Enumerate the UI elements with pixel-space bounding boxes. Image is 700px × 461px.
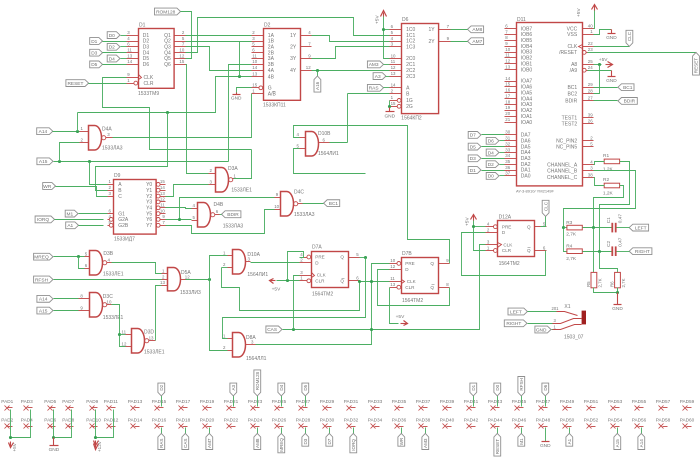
svg-text:A1: A1	[67, 223, 73, 229]
wire D1.Q4 to D6.1C1	[186, 18, 390, 53]
svg-text:1533ЛА3: 1533ЛА3	[102, 145, 123, 151]
svg-text:20: 20	[505, 111, 510, 116]
svg-text:11: 11	[127, 48, 132, 53]
svg-text:D0: D0	[488, 174, 494, 180]
svg-text:PRE: PRE	[315, 255, 324, 260]
svg-text:30: 30	[505, 130, 510, 135]
gate D3D 1533ЛЕ1 NOR	[122, 329, 165, 356]
svg-text:MREQ: MREQ	[279, 438, 284, 452]
svg-text:10: 10	[391, 53, 396, 58]
pad PAD23	[248, 399, 263, 411]
svg-text:D6: D6	[543, 384, 548, 390]
svg-text:D3: D3	[470, 156, 476, 162]
resistor R1	[603, 153, 620, 173]
wire D2.4Y to D6.2C2	[312, 70, 390, 72]
svg-text:PAD60: PAD60	[680, 417, 695, 422]
pad PAD51	[584, 399, 599, 411]
svg-text:18: 18	[505, 99, 510, 104]
pad PAD59	[680, 399, 695, 411]
svg-text:PAD1: PAD1	[1, 399, 13, 404]
flag GND at X1	[535, 326, 553, 333]
svg-text:19: 19	[505, 105, 510, 110]
svg-text:15: 15	[391, 101, 396, 106]
svg-text:D0: D0	[109, 33, 115, 39]
svg-text:IORQ: IORQ	[351, 439, 356, 451]
svg-text:CLR: CLR	[315, 279, 325, 284]
capacitor C1	[606, 214, 624, 233]
wire D10A.out to D7A.D	[251, 262, 300, 264]
flag D6 at PAD47	[542, 383, 549, 406]
svg-text:10: 10	[390, 258, 395, 263]
flag D2	[486, 161, 504, 168]
resistor R4	[566, 244, 582, 262]
svg-text:D1: D1	[139, 22, 146, 28]
svg-text:PAD54: PAD54	[608, 417, 623, 422]
wire A14 net to D2.4B	[78, 77, 252, 113]
svg-text:PAD11: PAD11	[104, 399, 119, 404]
svg-text:GND: GND	[49, 447, 60, 453]
svg-text:15: 15	[160, 179, 165, 184]
svg-text:PAD53: PAD53	[608, 399, 623, 404]
svg-text:GND: GND	[536, 327, 547, 333]
pad PAD5	[44, 399, 56, 411]
wire D2.G to GND	[237, 88, 252, 93]
svg-text:GND: GND	[384, 114, 395, 120]
power +5V arrow at D7B.CLR	[390, 288, 408, 326]
wire D8A.out to CAS riser	[256, 264, 390, 345]
svg-text:RAS: RAS	[159, 439, 164, 448]
svg-text:14: 14	[505, 76, 510, 81]
svg-text:37: 37	[505, 171, 510, 176]
flag WR	[43, 183, 108, 197]
pad PAD14	[128, 417, 143, 428]
IC D2 1533КП11 multiplexer	[252, 22, 312, 108]
gate D10A 1564ЛИ1 AND	[223, 250, 268, 279]
svg-text:12: 12	[391, 65, 396, 70]
pad PAD27	[296, 399, 311, 411]
svg-text:PAD45: PAD45	[512, 399, 527, 404]
flag D2	[107, 43, 126, 50]
flag A15 at PAD54	[614, 428, 621, 450]
svg-text:C2: C2	[606, 240, 612, 246]
pad PAD48	[536, 417, 551, 428]
flip-flop D7B 1564ТМ2	[390, 251, 450, 304]
pad PAD42	[464, 417, 479, 428]
pad PAD25	[272, 399, 287, 411]
svg-text:10: 10	[505, 47, 510, 52]
svg-text:31: 31	[505, 136, 510, 141]
svg-text:+5V: +5V	[396, 314, 405, 320]
svg-text:D5: D5	[303, 384, 308, 390]
svg-text:BC1: BC1	[329, 201, 339, 207]
svg-text:LEFT: LEFT	[635, 225, 647, 231]
svg-text:TEST2: TEST2	[562, 121, 578, 127]
flag A15 pads side	[37, 307, 79, 314]
pad PAD39	[440, 399, 455, 411]
pad PAD35	[392, 399, 407, 411]
pad PAD41	[464, 399, 479, 411]
svg-text:22: 22	[588, 41, 593, 46]
gate D3B 1533ЛЕ1 NOR	[85, 251, 124, 278]
svg-text:RAS: RAS	[369, 86, 379, 92]
svg-text:2Y: 2Y	[290, 45, 297, 51]
svg-text:PAD4: PAD4	[21, 417, 33, 422]
pad PAD58	[656, 417, 671, 428]
power +12V at PAD9-12	[94, 410, 114, 453]
flag A3	[373, 73, 389, 80]
svg-text:25: 25	[588, 59, 593, 64]
svg-text:M1: M1	[66, 211, 73, 217]
svg-text:PAD37: PAD37	[416, 399, 431, 404]
svg-text:A3: A3	[231, 384, 236, 390]
flag A3 at PAD21	[230, 383, 237, 406]
junction R4 right	[598, 250, 601, 253]
flag D5	[90, 61, 127, 68]
wire D10B.out to D6.B riser	[330, 142, 348, 144]
wire D2.1Y to D6.1C2	[312, 36, 390, 42]
wire D1.Q1 to D2.1A	[186, 35, 252, 37]
svg-text:PAD35: PAD35	[392, 399, 407, 404]
svg-text:A3: A3	[375, 74, 381, 80]
svg-text:D3D: D3D	[144, 329, 154, 335]
wire D7A.Q to D8A.1	[360, 257, 366, 259]
svg-text:12: 12	[185, 274, 190, 279]
power +5V arrow at D11.A8	[594, 57, 613, 94]
wire CAS net	[283, 245, 486, 332]
svg-text:A14: A14	[639, 439, 644, 448]
wire D10B.5 to D7A.Q	[294, 149, 366, 174]
wire D1 clock net	[103, 78, 252, 150]
svg-text:4A: 4A	[268, 68, 275, 74]
svg-text:PAD19: PAD19	[200, 399, 215, 404]
svg-text:39: 39	[588, 113, 593, 118]
flag CLC at D11.CLK	[594, 30, 633, 46]
wire CHANNEL_C to R2 to mix	[594, 178, 605, 186]
wire branch to D2.1B row	[239, 42, 241, 77]
pad PAD50	[560, 417, 575, 428]
pad PAD57	[656, 399, 671, 411]
wire A15 to D2.3B	[229, 65, 252, 162]
svg-text:BC1: BC1	[623, 85, 633, 91]
svg-text:PAD18: PAD18	[176, 417, 191, 422]
svg-text:1,2K: 1,2K	[603, 166, 614, 172]
svg-text:4Y: 4Y	[290, 68, 297, 74]
pad PAD12	[104, 417, 119, 428]
wire D10B.out to D6.B	[348, 93, 390, 95]
svg-text:16: 16	[505, 88, 510, 93]
pad PAD40	[440, 417, 455, 428]
pad PAD32	[344, 417, 359, 428]
svg-text:PAD42: PAD42	[464, 417, 479, 422]
svg-text:CHANNEL_C: CHANNEL_C	[547, 175, 578, 181]
svg-text:Q: Q	[527, 224, 531, 229]
power +5V at D11.VCC	[576, 5, 598, 29]
svg-text:CLK: CLK	[407, 279, 417, 284]
svg-text:MREQ: MREQ	[34, 255, 49, 261]
ground at PAD5-8	[49, 410, 72, 453]
svg-text:13: 13	[391, 71, 396, 76]
svg-text:IORQ: IORQ	[37, 217, 50, 223]
svg-text:D0: D0	[495, 384, 500, 390]
svg-text:RIGHT: RIGHT	[635, 249, 650, 255]
wire D3B.out to D5A.1	[112, 263, 162, 274]
svg-text:A14: A14	[39, 297, 48, 303]
svg-text:GND: GND	[231, 96, 242, 102]
flag BC1	[594, 84, 635, 91]
svg-text:/RESET: /RESET	[559, 50, 577, 56]
svg-text:PAD6: PAD6	[44, 417, 56, 422]
svg-text:PAD26: PAD26	[272, 417, 287, 422]
svg-text:17: 17	[505, 94, 510, 99]
wire R3 to C1	[583, 227, 612, 229]
svg-text:BDIR: BDIR	[565, 99, 577, 105]
svg-text:1533ЛЕ1: 1533ЛЕ1	[231, 187, 252, 193]
svg-text:Q: Q	[340, 255, 344, 260]
svg-text:Q6: Q6	[164, 62, 171, 68]
pad PAD3	[21, 399, 33, 411]
svg-text:D3A: D3A	[228, 166, 238, 172]
svg-text:CLK: CLK	[317, 273, 327, 278]
flag D0	[486, 173, 504, 180]
svg-text:Q: Q	[340, 279, 344, 284]
flag BC1 at D4C	[303, 200, 340, 207]
svg-text:C: C	[118, 194, 122, 200]
flag MREQ at PAD26	[278, 428, 285, 453]
junction Qbar row	[358, 280, 390, 283]
junction	[316, 69, 319, 72]
svg-text:2,7K: 2,7K	[621, 278, 626, 287]
svg-text:PAD25: PAD25	[272, 399, 287, 404]
svg-text:PAD20: PAD20	[200, 417, 215, 422]
pad PAD7	[62, 399, 74, 411]
power +5V at D12A	[464, 215, 485, 251]
flag D4	[486, 149, 504, 156]
svg-text:14: 14	[127, 59, 132, 64]
pad PAD53	[608, 399, 623, 411]
pad PAD11	[104, 399, 119, 411]
flag IORQ at PAD32	[350, 428, 357, 453]
svg-text:GND: GND	[540, 443, 551, 449]
flag A16	[314, 71, 321, 93]
svg-text:NC_PIN5: NC_PIN5	[556, 144, 577, 150]
svg-text:D5: D5	[470, 144, 476, 150]
flip-flop D12A 1564ТМ2	[486, 214, 547, 267]
resistor R2	[603, 177, 620, 197]
flag D4	[107, 55, 126, 62]
flag AM3	[367, 61, 389, 68]
svg-text:3Y: 3Y	[290, 56, 297, 62]
svg-text:D6: D6	[143, 62, 150, 68]
svg-text:D7A: D7A	[312, 245, 322, 251]
svg-text:1533ЛА3: 1533ЛА3	[223, 223, 244, 229]
pad PAD36	[392, 417, 407, 428]
svg-text:DA0: DA0	[521, 174, 531, 180]
junction R3 left	[562, 226, 565, 229]
svg-text:10: 10	[107, 300, 112, 305]
svg-text:AM3: AM3	[423, 438, 428, 448]
svg-text:R1: R1	[603, 153, 609, 159]
svg-text:Y7: Y7	[146, 223, 152, 229]
svg-text:IOA0: IOA0	[521, 120, 533, 126]
wire D9.Y6 to D4B.5 and D4C.9	[180, 198, 275, 220]
svg-text:A/B: A/B	[268, 91, 277, 97]
wire D9.Y2 to D3A.3	[166, 185, 209, 197]
svg-text:AM7: AM7	[472, 39, 482, 45]
flag D7	[468, 132, 504, 139]
pad PAD28	[296, 417, 311, 428]
ground at D11.VSS	[594, 30, 618, 42]
svg-text:D6: D6	[402, 17, 409, 23]
pad PAD44	[488, 417, 503, 428]
svg-text:32: 32	[505, 141, 510, 146]
svg-text:10: 10	[274, 204, 279, 209]
svg-text:2,7K: 2,7K	[566, 231, 577, 237]
svg-text:+5V: +5V	[272, 287, 281, 293]
svg-text:1533ИД7: 1533ИД7	[114, 237, 135, 243]
svg-text:AM3: AM3	[369, 62, 379, 68]
svg-text:2C3: 2C3	[406, 74, 415, 80]
junction	[166, 111, 169, 114]
flag IORQ	[35, 216, 103, 223]
svg-text:2,7K: 2,7K	[566, 256, 577, 262]
svg-text:PAD13: PAD13	[128, 399, 143, 404]
svg-text:28: 28	[588, 88, 593, 93]
wire D1.Q2 to D2.1B	[186, 41, 252, 43]
wire +5V to D7A.PRE	[288, 252, 304, 281]
svg-text:11: 11	[390, 276, 395, 281]
svg-text:13: 13	[390, 282, 395, 287]
flag D5 at PAD27	[302, 383, 309, 406]
svg-text:D4: D4	[279, 384, 284, 390]
svg-text:PAD57: PAD57	[656, 399, 671, 404]
svg-text:PAD56: PAD56	[632, 417, 647, 422]
svg-text:C1: C1	[606, 217, 612, 223]
svg-text:12: 12	[390, 264, 395, 269]
svg-text:PAD41: PAD41	[464, 399, 479, 404]
svg-text:PAD5: PAD5	[44, 399, 56, 404]
flag D3	[468, 155, 504, 162]
pad PAD15	[152, 399, 167, 411]
wire CHANNEL_A to R1 to mix	[594, 162, 605, 165]
svg-text:1564ЛИ1: 1564ЛИ1	[318, 151, 339, 157]
flag D1	[90, 38, 127, 45]
IC D9 1533ИД7 decoder	[108, 173, 166, 242]
svg-text:D4C: D4C	[294, 189, 304, 195]
svg-text:2,7K: 2,7K	[597, 278, 602, 287]
svg-text:R3: R3	[566, 220, 572, 226]
svg-text:33: 33	[505, 147, 510, 152]
svg-text:PAD55: PAD55	[632, 399, 647, 404]
svg-text:10: 10	[179, 48, 184, 53]
svg-text:12: 12	[179, 53, 184, 58]
flag D6	[486, 137, 504, 144]
svg-text:1533ЛИ3: 1533ЛИ3	[180, 290, 201, 296]
svg-text:23: 23	[588, 47, 593, 52]
flag D2 at PAD15	[158, 383, 165, 406]
svg-text:4B: 4B	[268, 75, 275, 81]
svg-text:PAD14: PAD14	[128, 417, 143, 422]
svg-text:14: 14	[252, 65, 257, 70]
svg-text:1,2K: 1,2K	[603, 191, 614, 197]
svg-text:1C3: 1C3	[406, 45, 415, 51]
gate D4A 1533ЛА3 NAND	[80, 126, 123, 152]
svg-text:D2: D2	[159, 384, 164, 390]
wire CHANNEL_B to R3	[564, 171, 636, 252]
svg-text:1564ТМ2: 1564ТМ2	[499, 261, 520, 267]
flag RESET	[66, 80, 127, 87]
flag D7 at PAD30	[326, 428, 333, 447]
flag ROM128 at PAD23	[254, 370, 261, 407]
flag D3	[90, 49, 127, 56]
svg-text:PAD12: PAD12	[104, 417, 119, 422]
svg-text:14: 14	[391, 83, 396, 88]
svg-text:12: 12	[505, 59, 510, 64]
wire D4A.out to D2.A/B	[113, 94, 252, 138]
svg-text:PAD23: PAD23	[248, 399, 263, 404]
svg-text:D10B: D10B	[318, 131, 331, 137]
IC D11 AY-3-8910/YM2149F	[505, 17, 594, 194]
flag LEFT at X1	[508, 308, 557, 315]
svg-text:PAD39: PAD39	[440, 399, 455, 404]
flag RIGHT at X1	[504, 320, 552, 327]
svg-text:24: 24	[588, 65, 593, 70]
svg-text:GND: GND	[606, 78, 617, 84]
pad PAD6	[44, 417, 56, 428]
svg-text:A1: A1	[567, 438, 572, 444]
svg-text:1564ТМ2: 1564ТМ2	[402, 298, 423, 304]
svg-text:PAD46: PAD46	[512, 417, 527, 422]
wire D3D.out to D5A.13	[156, 286, 162, 341]
wire D6 1G 2G to ground	[384, 101, 395, 120]
flag BDIR at D4B	[220, 211, 241, 218]
power +5V at PAD1-4	[9, 410, 31, 452]
pad PAD45	[512, 399, 527, 411]
svg-text:PAD27: PAD27	[296, 399, 311, 404]
svg-text:40: 40	[588, 23, 593, 28]
flag AM7	[451, 38, 484, 45]
flag RAS	[367, 84, 389, 91]
flag AM3 at PAD38	[422, 428, 429, 450]
pad PAD52	[584, 417, 599, 428]
svg-text:27: 27	[588, 96, 593, 101]
gate D10B 1564ЛИ1 AND	[297, 131, 339, 157]
svg-text:PAD7: PAD7	[62, 399, 74, 404]
svg-text:13: 13	[160, 280, 165, 285]
power +5V	[374, 11, 389, 59]
svg-text:D5: D5	[91, 62, 97, 68]
svg-text:R5: R5	[586, 281, 591, 287]
svg-text:PAD32: PAD32	[344, 417, 359, 422]
pad PAD54	[608, 417, 623, 428]
svg-text:PAD33: PAD33	[368, 399, 383, 404]
svg-text:A15: A15	[615, 439, 620, 448]
pad PAD56	[632, 417, 647, 428]
svg-text:PAD3: PAD3	[21, 399, 33, 404]
flag RESET at PAD44	[494, 428, 501, 457]
svg-text:CLR: CLR	[502, 248, 512, 253]
pad PAD49	[560, 399, 575, 411]
wire D5A.out junctions	[186, 279, 210, 281]
svg-text:D3: D3	[91, 51, 97, 57]
wire D9.Y7 to D4C.10	[166, 210, 275, 234]
flag A15	[37, 143, 229, 185]
ground at PAD48	[540, 428, 551, 450]
pad PAD47	[536, 399, 551, 411]
svg-text:M1: M1	[519, 438, 524, 445]
pad PAD29	[320, 399, 335, 411]
svg-text:PAD49: PAD49	[560, 399, 575, 404]
svg-text:Q: Q	[430, 285, 434, 290]
